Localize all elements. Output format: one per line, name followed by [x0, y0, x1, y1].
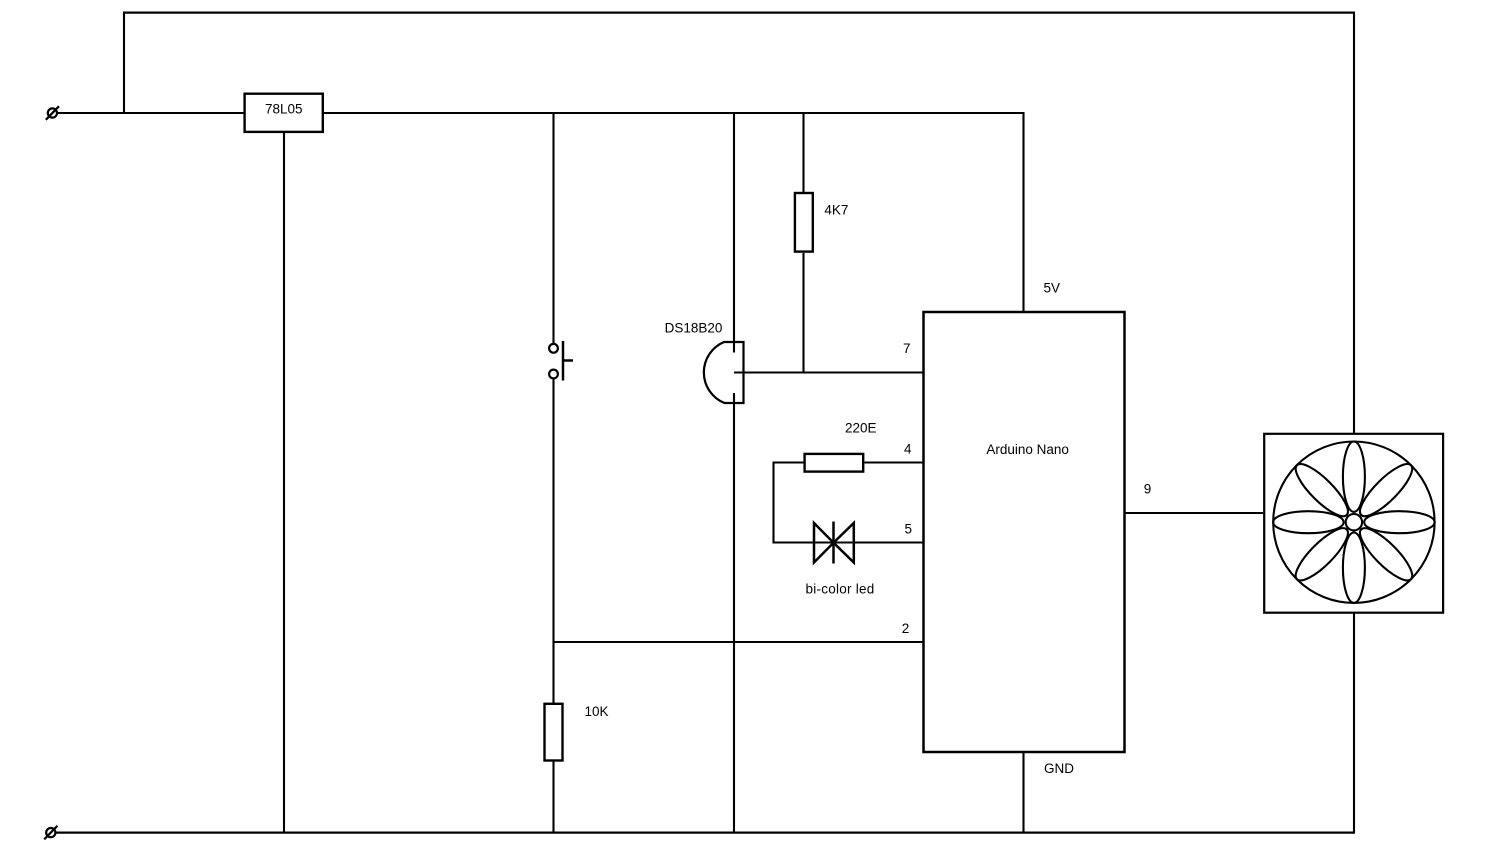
svg-text:9: 9 — [1144, 482, 1152, 497]
wire: Arduino GND drop — [1022, 752, 1024, 834]
svg-text:5: 5 — [904, 522, 912, 537]
wire: 220E left, down to led row — [774, 463, 815, 543]
wire: bottom ground rail — [55, 831, 1355, 833]
svg-text:4: 4 — [904, 442, 912, 457]
wire: input terminal to 78L05 — [57, 112, 244, 114]
resistor 220E — [805, 454, 864, 472]
resistor 10K — [545, 704, 563, 761]
wire: right drop from top rail to fan — [1353, 12, 1355, 434]
wire: 78L05 output to 5V corner — [324, 112, 1025, 114]
svg-text:bi-color led: bi-color led — [805, 581, 874, 596]
svg-text:DS18B20: DS18B20 — [665, 321, 723, 336]
fan outer circle — [1273, 442, 1434, 603]
svg-text:4K7: 4K7 — [824, 202, 848, 217]
wire: 10K to ground rail — [552, 762, 554, 834]
svg-text:7: 7 — [903, 341, 911, 356]
svg-text:GND: GND — [1044, 761, 1074, 776]
svg-text:78L05: 78L05 — [265, 102, 303, 117]
wire: 5V rail down to DS18B20 top pin — [733, 112, 735, 353]
wire: 78L05 ground drop — [283, 133, 285, 834]
wire: fan bottom to ground rail — [1353, 614, 1355, 834]
mcu Arduino Nano box — [924, 312, 1125, 752]
wire: top rail — [123, 12, 1355, 14]
wire: 4K7 down to data line — [802, 253, 804, 373]
regulator 78L05 box — [245, 94, 323, 132]
push button S1 — [549, 344, 558, 379]
terminal ground (ø) — [44, 826, 57, 840]
svg-text:5V: 5V — [1043, 280, 1060, 295]
fan M1 box — [1264, 434, 1443, 613]
wire: Arduino pin 9 to fan — [1125, 512, 1264, 514]
sensor DS18B20 body — [704, 342, 744, 403]
wire: push button down to pin2 node and 10K — [552, 380, 554, 704]
fan blades — [1273, 442, 1434, 603]
svg-text:10K: 10K — [584, 704, 608, 719]
wire: 5V rail down to 4K7 — [802, 112, 804, 192]
wire: left riser from input rail to top rail — [123, 12, 125, 114]
wire: DS18B20 ground pin down to rail — [733, 393, 735, 834]
resistor 4K7 — [795, 193, 813, 252]
wire: led to Arduino pin 5 — [814, 541, 924, 543]
wire: DS18B20 data to Arduino pin 7 — [734, 371, 924, 373]
wire: 5V rail down to push button — [552, 112, 554, 343]
svg-text:Arduino Nano: Arduino Nano — [986, 442, 1069, 457]
terminal input (ø) — [46, 106, 59, 120]
wire: 5V drop into Arduino top — [1022, 112, 1024, 312]
led bi-color D1 — [814, 522, 854, 564]
wire: Arduino pin 4 to 220E — [865, 461, 925, 463]
fan hub — [1346, 514, 1362, 530]
svg-text:2: 2 — [902, 621, 910, 636]
svg-text:220E: 220E — [845, 421, 877, 436]
wire: pin 2 to button/10K node — [554, 641, 925, 643]
